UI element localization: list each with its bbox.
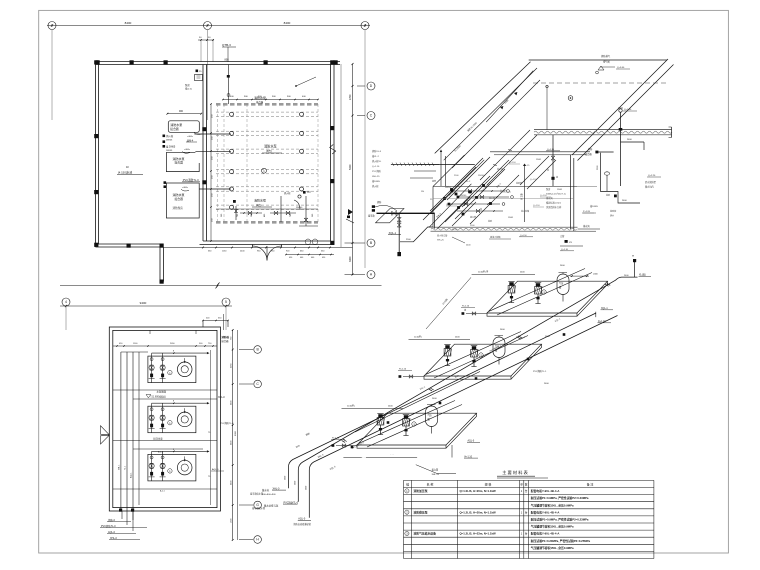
svg-text:消火栓: 消火栓 <box>166 134 174 138</box>
column squares on top wall <box>96 60 100 64</box>
plan2 separator line 1 <box>113 389 217 391</box>
midbox top-left diagonal 45 <box>433 155 465 187</box>
left strip vertical dim in room <box>210 104 212 241</box>
svg-text:台: 台 <box>525 489 528 493</box>
roof dashed centerline <box>533 82 667 84</box>
svg-text:PVC消防TL-0: PVC消防TL-0 <box>284 500 299 504</box>
platform1 dim diag from below <box>426 277 471 329</box>
svg-text:360: 360 <box>312 214 314 217</box>
svg-text:3: 3 <box>364 24 366 28</box>
roof left edge 45deg <box>435 62 531 154</box>
pipe from box2 to riser <box>195 150 231 152</box>
top dimension line of plan 1 <box>47 25 370 27</box>
svg-text:接合器: 接合器 <box>170 127 179 131</box>
svg-text:消防水泵: 消防水泵 <box>254 198 266 203</box>
svg-text:Q=1.0L/S, H=20m, N=1.1kW: Q=1.0L/S, H=20m, N=1.1kW <box>460 489 497 493</box>
leader from box1 <box>194 133 202 135</box>
hatched band right bracket <box>671 127 673 138</box>
break symbol on right wall <box>330 145 336 155</box>
roof right edge 45 double <box>572 59 668 155</box>
svg-text:PVC消防TL-0: PVC消防TL-0 <box>183 178 199 182</box>
svg-text:规 格: 规 格 <box>485 481 492 486</box>
left dim line above box1 <box>167 113 201 115</box>
platform 2 slab <box>424 376 511 379</box>
pump unit 1 <box>148 356 196 383</box>
svg-text:消防加压泵: 消防加压泵 <box>413 489 428 493</box>
svg-text:接 DN65: 接 DN65 <box>166 145 176 149</box>
isolated fitting top area between isos <box>565 240 568 243</box>
plan2 right wall dims <box>223 314 225 330</box>
svg-text:消防栓: 消防栓 <box>222 335 230 339</box>
interior dim line above rows <box>223 99 318 101</box>
plan2 bottom inner line <box>113 488 217 490</box>
svg-text:XHL-0: XHL-0 <box>273 487 280 490</box>
plan2 top-right notch <box>203 320 228 322</box>
suction pipe rows dashed <box>216 111 318 113</box>
svg-text:PVC消防TL-0: PVC消防TL-0 <box>101 524 116 528</box>
black beads on mains <box>387 421 390 424</box>
long section line below plan1 <box>60 284 382 286</box>
hatch ticks on pipe <box>392 163 394 166</box>
svg-text:3000: 3000 <box>349 256 352 262</box>
black arrows on roof diagonal <box>500 106 503 109</box>
svg-text:接合器: 接合器 <box>175 161 184 165</box>
arrow ticks on main 2 <box>607 283 610 285</box>
svg-text:XHL-0: XHL-0 <box>110 537 117 540</box>
platform2 left inlet <box>403 376 424 378</box>
right grid bubble C <box>357 115 365 117</box>
svg-text:XQL-0: XQL-0 <box>218 397 225 399</box>
wall sleeve squares on pump room left wall <box>202 127 206 131</box>
plan2 grid bubble left <box>62 298 70 306</box>
grid bubble 3 <box>361 22 369 30</box>
leader into room corner <box>296 77 316 86</box>
section mark glyph right side <box>348 209 353 215</box>
platform3 left inlet <box>336 445 357 447</box>
plan2 inner dim line top <box>113 345 217 347</box>
column squares on bottom wing <box>127 244 131 248</box>
svg-text:单: 单 <box>520 482 523 486</box>
plan2 vertical supply pipes <box>120 352 122 511</box>
svg-text:5: 5 <box>225 300 227 304</box>
svg-text:接合器: 接合器 <box>256 100 264 104</box>
svg-text:AQL-0: AQL-0 <box>108 531 116 534</box>
svg-text:P+1.20: P+1.20 <box>583 211 591 213</box>
leader to riser labels below p3 <box>416 465 456 474</box>
materials table grid <box>404 480 654 558</box>
svg-text:XQL-1: XQL-1 <box>389 231 397 235</box>
svg-text:· · ·: · · · <box>362 457 366 460</box>
svg-text:泵房: 泵房 <box>185 83 190 87</box>
svg-text:DN65: DN65 <box>508 217 514 219</box>
svg-text:400: 400 <box>300 257 303 259</box>
svg-text:DN/65: DN/65 <box>166 150 173 152</box>
main diagonal 4 short <box>355 372 480 433</box>
pump room bottom wall <box>203 240 331 242</box>
svg-text:消防-0: 消防-0 <box>108 518 116 522</box>
platform 1 pumps <box>508 286 515 294</box>
svg-text:DN100: DN100 <box>296 207 303 209</box>
plan2 bottom exit pipes <box>121 511 123 519</box>
vertical dashed pipe lines in room <box>217 104 219 222</box>
svg-text:Q+2.20: Q+2.20 <box>648 175 656 177</box>
riser drop from main pipe <box>398 214 400 252</box>
grid extension line B <box>207 30 209 120</box>
platform1 back dim segment <box>570 275 589 277</box>
svg-text:Q+1.10: Q+1.10 <box>446 204 454 206</box>
horizontal pipe rows left of midbox <box>418 163 439 165</box>
bottom dim chain of plan1 <box>164 247 353 249</box>
circled number 1 in room <box>262 168 267 173</box>
plan2 door triangles left <box>101 426 110 435</box>
svg-text:AQL-0: AQL-0 <box>468 440 475 443</box>
plan2 long inner connector lines <box>133 398 217 400</box>
below platform3 horizontal leaders <box>343 456 361 458</box>
svg-text:480: 480 <box>264 214 266 217</box>
platform 3 tank <box>426 406 438 426</box>
plan2 right bubbles <box>239 349 253 351</box>
inner equipment symbol top-left of room <box>195 75 203 81</box>
svg-text:Q+1.10: Q+1.10 <box>509 162 517 164</box>
midbox front face <box>433 186 577 188</box>
svg-text:G: G <box>256 503 259 507</box>
svg-text:备 注: 备 注 <box>587 481 594 486</box>
midbox right edge double <box>570 155 572 229</box>
wall-adjacent vertical line x341 <box>340 64 342 247</box>
svg-text:(2台): (2台) <box>256 203 262 207</box>
pump unit 2 <box>148 406 196 433</box>
right grid bubble A <box>345 274 366 276</box>
pump room left wall <box>202 65 204 242</box>
dense fitting cluster bottom right of room <box>280 196 282 222</box>
platform 2 tank <box>493 337 505 358</box>
svg-text:8400: 8400 <box>125 21 132 25</box>
platform 1 deck pipes <box>489 269 585 312</box>
upper-left assembly black fittings <box>372 205 375 208</box>
midbox vertical left stub <box>433 214 435 229</box>
main diagonal 3 <box>309 316 617 518</box>
svg-text:1: 1 <box>51 24 53 28</box>
short diagonals right part of box <box>520 156 549 185</box>
svg-text:气压罐调节容积150L, 余压0.9MPa: 气压罐调节容积150L, 余压0.9MPa <box>530 546 574 550</box>
black beads on fan lines <box>450 188 453 191</box>
building lower wing wall vertical <box>159 247 161 282</box>
band tail to right <box>578 228 601 230</box>
svg-text:数: 数 <box>525 482 528 486</box>
svg-text:Q+1.10: Q+1.10 <box>540 195 548 197</box>
svg-text:配套电机Y-90L-4B-4-A: 配套电机Y-90L-4B-4-A <box>531 510 560 514</box>
platform 1 slab <box>487 313 577 316</box>
upper mid pipe diagonal pair 45 <box>480 130 530 180</box>
svg-text:主 要 材 料 表: 主 要 材 料 表 <box>502 469 528 476</box>
svg-text:Q+1.10: Q+1.10 <box>372 166 380 168</box>
svg-text:XL-25: XL-25 <box>524 165 530 167</box>
plan2 top wall tick details <box>149 330 151 334</box>
riser circles right column <box>300 112 304 116</box>
svg-text:消防气压给水设备: 消防气压给水设备 <box>413 532 437 536</box>
svg-text:×400×: ×400× <box>184 148 191 151</box>
svg-text:900: 900 <box>179 110 184 113</box>
svg-text:DN100: DN100 <box>460 195 467 197</box>
platform 3 dim line <box>342 408 404 410</box>
svg-text:DN/65: DN/65 <box>166 140 173 142</box>
plan2 top dimension line <box>60 305 232 307</box>
right grid bubble B <box>345 242 366 244</box>
svg-text:×400×: ×400× <box>182 186 189 189</box>
suction header cluster horizontals <box>452 190 505 192</box>
small dim cluster above wall <box>198 39 214 41</box>
svg-text:XL-25: XL-25 <box>452 229 458 231</box>
plan2 bottom-left small squares on wall <box>119 509 122 512</box>
svg-text:5400: 5400 <box>349 164 352 170</box>
platform 1 dim line <box>472 274 535 276</box>
svg-text:8400: 8400 <box>284 21 291 25</box>
platform 3 deck pipes <box>359 401 455 444</box>
break mark on section line <box>216 282 220 288</box>
right outer dim line <box>352 64 354 275</box>
plan2 grid bubble right <box>222 298 230 306</box>
main diagonal 1 <box>288 313 596 488</box>
svg-text:400: 400 <box>311 257 314 259</box>
svg-text:780: 780 <box>290 214 292 217</box>
arrow ticks on diagonals <box>493 165 497 166</box>
svg-text:TL-1: TL-1 <box>125 466 127 470</box>
svg-text:耐压试验P1=0.9MPa, 严密性试验P2=0.23MPa: 耐压试验P1=0.9MPa, 严密性试验P2=0.23MPa <box>531 518 589 522</box>
right small ellipse fitting <box>604 172 609 175</box>
svg-text:XHL-25: XHL-25 <box>437 240 445 242</box>
svg-text:接合器: 接合器 <box>175 197 184 201</box>
svg-text:Q+3.60: Q+3.60 <box>617 67 625 69</box>
svg-text:[4.150]水池: [4.150]水池 <box>118 171 132 175</box>
cluster small circles <box>507 190 510 193</box>
label box 2 polygon <box>166 152 199 171</box>
svg-text:XHL-1: XHL-1 <box>119 465 121 470</box>
roof top edge <box>529 59 667 61</box>
platform 2 pumps <box>444 349 451 357</box>
svg-text:消防泵房: 消防泵房 <box>173 206 184 210</box>
svg-text:AQL-0: AQL-0 <box>212 468 219 471</box>
riser at top of main <box>634 260 636 277</box>
grid bubble 2 <box>204 22 212 30</box>
svg-text:/55M=4.2m³(Gx/7.2s: /55M=4.2m³(Gx/7.2s <box>546 193 567 196</box>
platform 3 circled num <box>412 422 416 426</box>
building wall bottom-left wing <box>96 243 164 245</box>
platform1 left inlet assembly <box>466 313 487 315</box>
svg-text:Q+1.10: Q+1.10 <box>500 190 508 192</box>
svg-text:集水坑排污泵: 集水坑排污泵 <box>264 504 279 508</box>
plan2 right inner dim <box>210 350 212 505</box>
column squares on right wall <box>330 60 334 64</box>
platform 1 tank <box>557 274 569 295</box>
svg-text:Q+1.60: Q+1.60 <box>624 109 632 111</box>
svg-text:集水坑: 集水坑 <box>262 488 270 492</box>
svg-text:450: 450 <box>289 257 292 259</box>
plan2 right dim line 2 outer <box>237 330 239 540</box>
svg-text:Q+1.10: Q+1.10 <box>530 179 538 181</box>
svg-text:1F: 1F <box>126 165 129 169</box>
grid extension line A <box>51 30 53 120</box>
right assembly 2 <box>597 151 614 153</box>
svg-text:Q=1.2L/S, H=23m, N=1.1kW: Q=1.2L/S, H=23m, N=1.1kW <box>460 532 497 536</box>
svg-text:XHL-25: XHL-25 <box>372 176 380 178</box>
svg-text:Q+1.10: Q+1.10 <box>533 205 541 207</box>
door opening arcs plan1 <box>253 246 268 261</box>
main horizontal pipe y213 <box>377 212 435 214</box>
platform1 circled num <box>542 290 546 294</box>
svg-text:台: 台 <box>525 510 528 514</box>
fan lower diagonals into midbox <box>445 197 470 222</box>
svg-text:9400: 9400 <box>140 301 147 305</box>
svg-text:配套电机Y-90L-4B-4-A: 配套电机Y-90L-4B-4-A <box>531 489 560 493</box>
vertical drop from roof dashes to band <box>546 85 548 130</box>
building outer wall top <box>96 61 341 63</box>
svg-text:配套电机Y-90L-4B-4-A: 配套电机Y-90L-4B-4-A <box>531 532 560 536</box>
bottom sub dim chain <box>286 254 334 256</box>
svg-text:240: 240 <box>251 214 253 217</box>
svg-text:450: 450 <box>322 257 325 259</box>
platform 2 circled num <box>479 353 483 357</box>
svg-text:360: 360 <box>221 214 223 217</box>
small bubbles in dim chain <box>305 239 311 245</box>
riser circles left column <box>230 112 234 116</box>
small dim row above fittings <box>216 208 318 210</box>
right pipes: riser with flag <box>619 109 622 112</box>
svg-text:消防水泵: 消防水泵 <box>264 144 278 149</box>
QTB riser inside room <box>228 65 230 105</box>
pump room right wall <box>330 65 332 242</box>
svg-text:耐压试验P1=0.9MPa, 严密性试验P2=0.23MPa: 耐压试验P1=0.9MPa, 严密性试验P2=0.23MPa <box>531 496 589 500</box>
main diagonal 2 <box>298 277 637 502</box>
pipe from box1 to riser <box>194 133 231 135</box>
roof area circled fitting <box>568 96 573 101</box>
svg-text:2700: 2700 <box>349 94 352 100</box>
header pipe band top (dashed gray) <box>216 103 318 106</box>
svg-text:×400×: ×400× <box>187 135 194 138</box>
header pipe band bottom (dashed gray) <box>216 221 318 224</box>
svg-text:3000: 3000 <box>294 481 296 485</box>
svg-text:DN65: DN65 <box>536 159 542 161</box>
plan2 separator line 2 <box>113 440 217 442</box>
svg-text:· · ·: · · · <box>390 454 394 457</box>
svg-text:800×800×900: 800×800×900 <box>262 493 276 496</box>
riser below band at x553 <box>552 135 554 186</box>
svg-text:4: 4 <box>65 300 67 304</box>
svg-text:消防水泵: 消防水泵 <box>254 95 266 100</box>
midbox inner shelf line <box>433 198 573 200</box>
midbox interior vertical pipe <box>524 166 526 222</box>
right grid bubble D <box>357 85 365 87</box>
valve on main pipe <box>392 211 396 215</box>
svg-text:(6台): (6台) <box>266 149 272 153</box>
tiny underline marks iso1 <box>446 205 457 207</box>
label box 1 fire pump adapter <box>168 121 199 133</box>
platform 3 pumps <box>377 418 384 426</box>
svg-text:780: 780 <box>237 214 239 217</box>
pipe diagonals on roof plane 45deg <box>444 68 537 160</box>
table content rows <box>405 489 409 493</box>
pump unit 3 <box>148 454 196 481</box>
svg-text:气压罐调节容积150L, 余压0.9MPa: 气压罐调节容积150L, 余压0.9MPa <box>530 525 574 529</box>
svg-text:消防稳压泵: 消防稳压泵 <box>413 510 428 514</box>
svg-text:QTB-3: QTB-3 <box>222 43 231 47</box>
building outer wall left <box>95 62 97 248</box>
svg-text:XHL-25: XHL-25 <box>432 474 440 476</box>
midbox lower hatched band <box>431 227 578 231</box>
plan2 right dim line 1 <box>232 330 234 540</box>
svg-text:名 称: 名 称 <box>427 481 434 486</box>
svg-text:DN65: DN65 <box>557 189 563 191</box>
svg-text:台: 台 <box>525 532 528 536</box>
platform 2 dim line <box>409 339 471 341</box>
svg-text:气压罐调节容积150L, 余压0.9MPa: 气压罐调节容积150L, 余压0.9MPa <box>530 503 574 507</box>
platform 3 slab <box>357 445 446 448</box>
grid bubble 1 <box>48 22 56 30</box>
svg-text:3000: 3000 <box>305 486 307 490</box>
pipe from box3 to riser <box>199 188 231 190</box>
grid extension line C <box>364 30 366 268</box>
svg-text:800: 800 <box>225 59 230 62</box>
upper hatched band (water line) <box>534 130 672 135</box>
svg-text:编: 编 <box>406 481 409 486</box>
svg-text:3000: 3000 <box>285 476 287 480</box>
plan2 outer wall rectangle <box>109 327 220 511</box>
svg-text:9000: 9000 <box>235 430 237 436</box>
tiny labels with squares left 2 <box>163 145 166 148</box>
left fan of pipe diagonals 45deg <box>430 158 483 211</box>
svg-text:Q=1.2L/S, H=20m, N=1.1kW: Q=1.2L/S, H=20m, N=1.1kW <box>460 510 497 514</box>
midbox top edge double <box>490 151 590 153</box>
small parallelogram at main pipe left end <box>376 209 405 223</box>
svg-text:AQL-1: AQL-1 <box>130 473 133 478</box>
stepped pipe to midbox <box>400 227 433 242</box>
label box 3 <box>166 183 199 218</box>
svg-text:耐压试验P1=0.20MPa, 严密性试验P2=0.25MP: 耐压试验P1=0.20MPa, 严密性试验P2=0.25MPa <box>531 539 591 543</box>
right stepped pipe low <box>600 192 640 204</box>
svg-text:水泵基础: 水泵基础 <box>157 389 167 393</box>
tiny labels with squares left 1 <box>163 135 166 138</box>
plan2 grid extensions <box>65 306 67 330</box>
far-left tail of mains <box>258 467 288 470</box>
column squares on left wall <box>94 60 98 64</box>
riser pair x441 <box>440 152 442 186</box>
svg-text:2: 2 <box>207 24 209 28</box>
platform 2 deck pipes <box>426 332 521 375</box>
